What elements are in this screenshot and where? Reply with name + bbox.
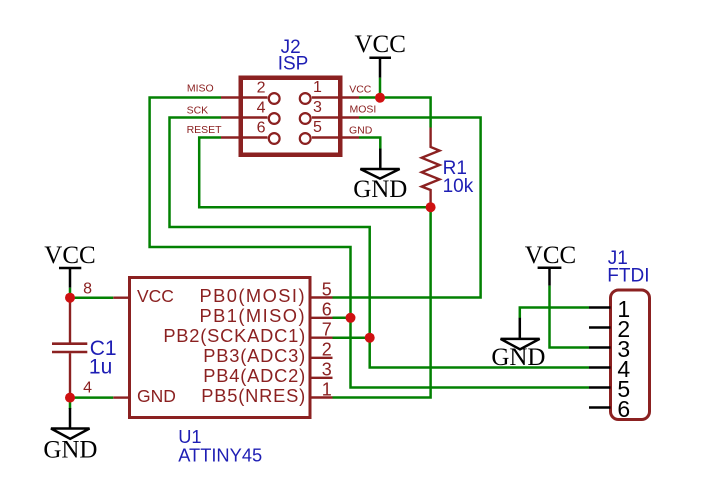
svg-text:1: 1 bbox=[313, 79, 322, 96]
svg-text:VCC: VCC bbox=[525, 242, 576, 269]
svg-text:PB2(SCKADC1): PB2(SCKADC1) bbox=[163, 325, 306, 346]
svg-text:6: 6 bbox=[322, 299, 332, 319]
svg-text:ATTINY45: ATTINY45 bbox=[178, 445, 262, 466]
svg-text:1u: 1u bbox=[89, 356, 112, 379]
svg-text:GND: GND bbox=[43, 437, 97, 464]
svg-text:PB0(MOSI): PB0(MOSI) bbox=[199, 285, 306, 306]
svg-text:1: 1 bbox=[322, 379, 332, 399]
svg-text:5: 5 bbox=[322, 279, 332, 299]
svg-text:4: 4 bbox=[83, 379, 92, 396]
svg-text:VCC: VCC bbox=[44, 242, 95, 269]
svg-text:10k: 10k bbox=[443, 176, 474, 197]
svg-text:MOSI: MOSI bbox=[350, 104, 377, 116]
svg-text:2: 2 bbox=[257, 79, 266, 96]
svg-text:ISP: ISP bbox=[278, 54, 309, 75]
svg-text:6: 6 bbox=[617, 396, 630, 422]
svg-text:3: 3 bbox=[313, 99, 322, 116]
svg-text:GND: GND bbox=[491, 344, 545, 371]
svg-text:7: 7 bbox=[322, 319, 332, 339]
svg-text:PB5(NRES): PB5(NRES) bbox=[201, 385, 306, 406]
svg-text:8: 8 bbox=[83, 280, 92, 297]
svg-text:6: 6 bbox=[257, 119, 266, 136]
svg-text:VCC: VCC bbox=[137, 286, 174, 306]
svg-text:5: 5 bbox=[313, 119, 322, 136]
svg-text:PB4(ADC2): PB4(ADC2) bbox=[203, 365, 306, 386]
svg-text:GND: GND bbox=[353, 176, 407, 203]
svg-text:VCC: VCC bbox=[349, 83, 372, 95]
svg-text:GND: GND bbox=[137, 386, 176, 406]
svg-text:MISO: MISO bbox=[187, 82, 214, 94]
svg-text:RESET: RESET bbox=[187, 124, 223, 136]
svg-text:FTDI: FTDI bbox=[607, 266, 649, 287]
svg-text:2: 2 bbox=[322, 339, 332, 359]
svg-text:4: 4 bbox=[257, 99, 266, 116]
svg-text:SCK: SCK bbox=[187, 105, 209, 117]
svg-text:PB1(MISO): PB1(MISO) bbox=[199, 305, 306, 326]
svg-text:GND: GND bbox=[349, 124, 373, 136]
svg-text:VCC: VCC bbox=[354, 31, 405, 58]
svg-text:3: 3 bbox=[322, 359, 332, 379]
svg-text:PB3(ADC3): PB3(ADC3) bbox=[203, 345, 306, 366]
